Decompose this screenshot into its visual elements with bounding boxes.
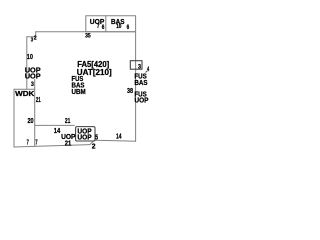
svg-text:38: 38	[127, 88, 133, 95]
main bottom edge	[95, 139, 136, 142]
svg-text:10: 10	[27, 52, 33, 61]
svg-text:7: 7	[35, 139, 37, 146]
svg-text:6: 6	[127, 25, 130, 31]
svg-text:14: 14	[54, 128, 61, 135]
svg-text:21: 21	[36, 97, 41, 104]
leader tick to dim 4	[146, 71, 148, 72]
svg-text:21: 21	[65, 140, 72, 147]
svg-text:20: 20	[28, 118, 34, 125]
house edge vertical right of wdk	[34, 80, 36, 147]
svg-text:2: 2	[34, 36, 37, 42]
svg-text:21: 21	[65, 118, 71, 125]
svg-text:3: 3	[138, 64, 141, 71]
svg-text:UOP: UOP	[25, 72, 41, 81]
right edge	[135, 32, 137, 142]
svg-text:35: 35	[85, 34, 91, 40]
top-left jog	[27, 32, 36, 37]
svg-text:5: 5	[95, 134, 98, 141]
main top edge	[36, 31, 136, 33]
svg-text:UOP: UOP	[77, 135, 92, 142]
svg-text:14: 14	[116, 134, 122, 141]
svg-text:WDK: WDK	[15, 89, 35, 98]
svg-text:10: 10	[116, 24, 122, 30]
top attached box UOP/BAS outline	[86, 16, 136, 32]
top box divider	[105, 16, 107, 32]
svg-text:UOP: UOP	[134, 96, 148, 105]
right notch box	[130, 61, 142, 69]
wdk left edge	[13, 89, 15, 147]
leader diagonal to dim 2	[90, 140, 94, 144]
svg-text:7: 7	[27, 139, 29, 146]
svg-text:2: 2	[92, 143, 96, 150]
annotation box UOP/UOP	[76, 127, 95, 141]
wdk top edge	[14, 88, 35, 90]
svg-text:3: 3	[31, 81, 34, 88]
svg-text:6: 6	[102, 25, 105, 31]
svg-text:UBM: UBM	[72, 87, 86, 96]
left edge	[26, 37, 28, 90]
porch bottom edge	[14, 145, 90, 147]
svg-text:4: 4	[147, 66, 149, 73]
svg-text:BAS: BAS	[134, 78, 147, 87]
porch top edge	[35, 124, 74, 126]
